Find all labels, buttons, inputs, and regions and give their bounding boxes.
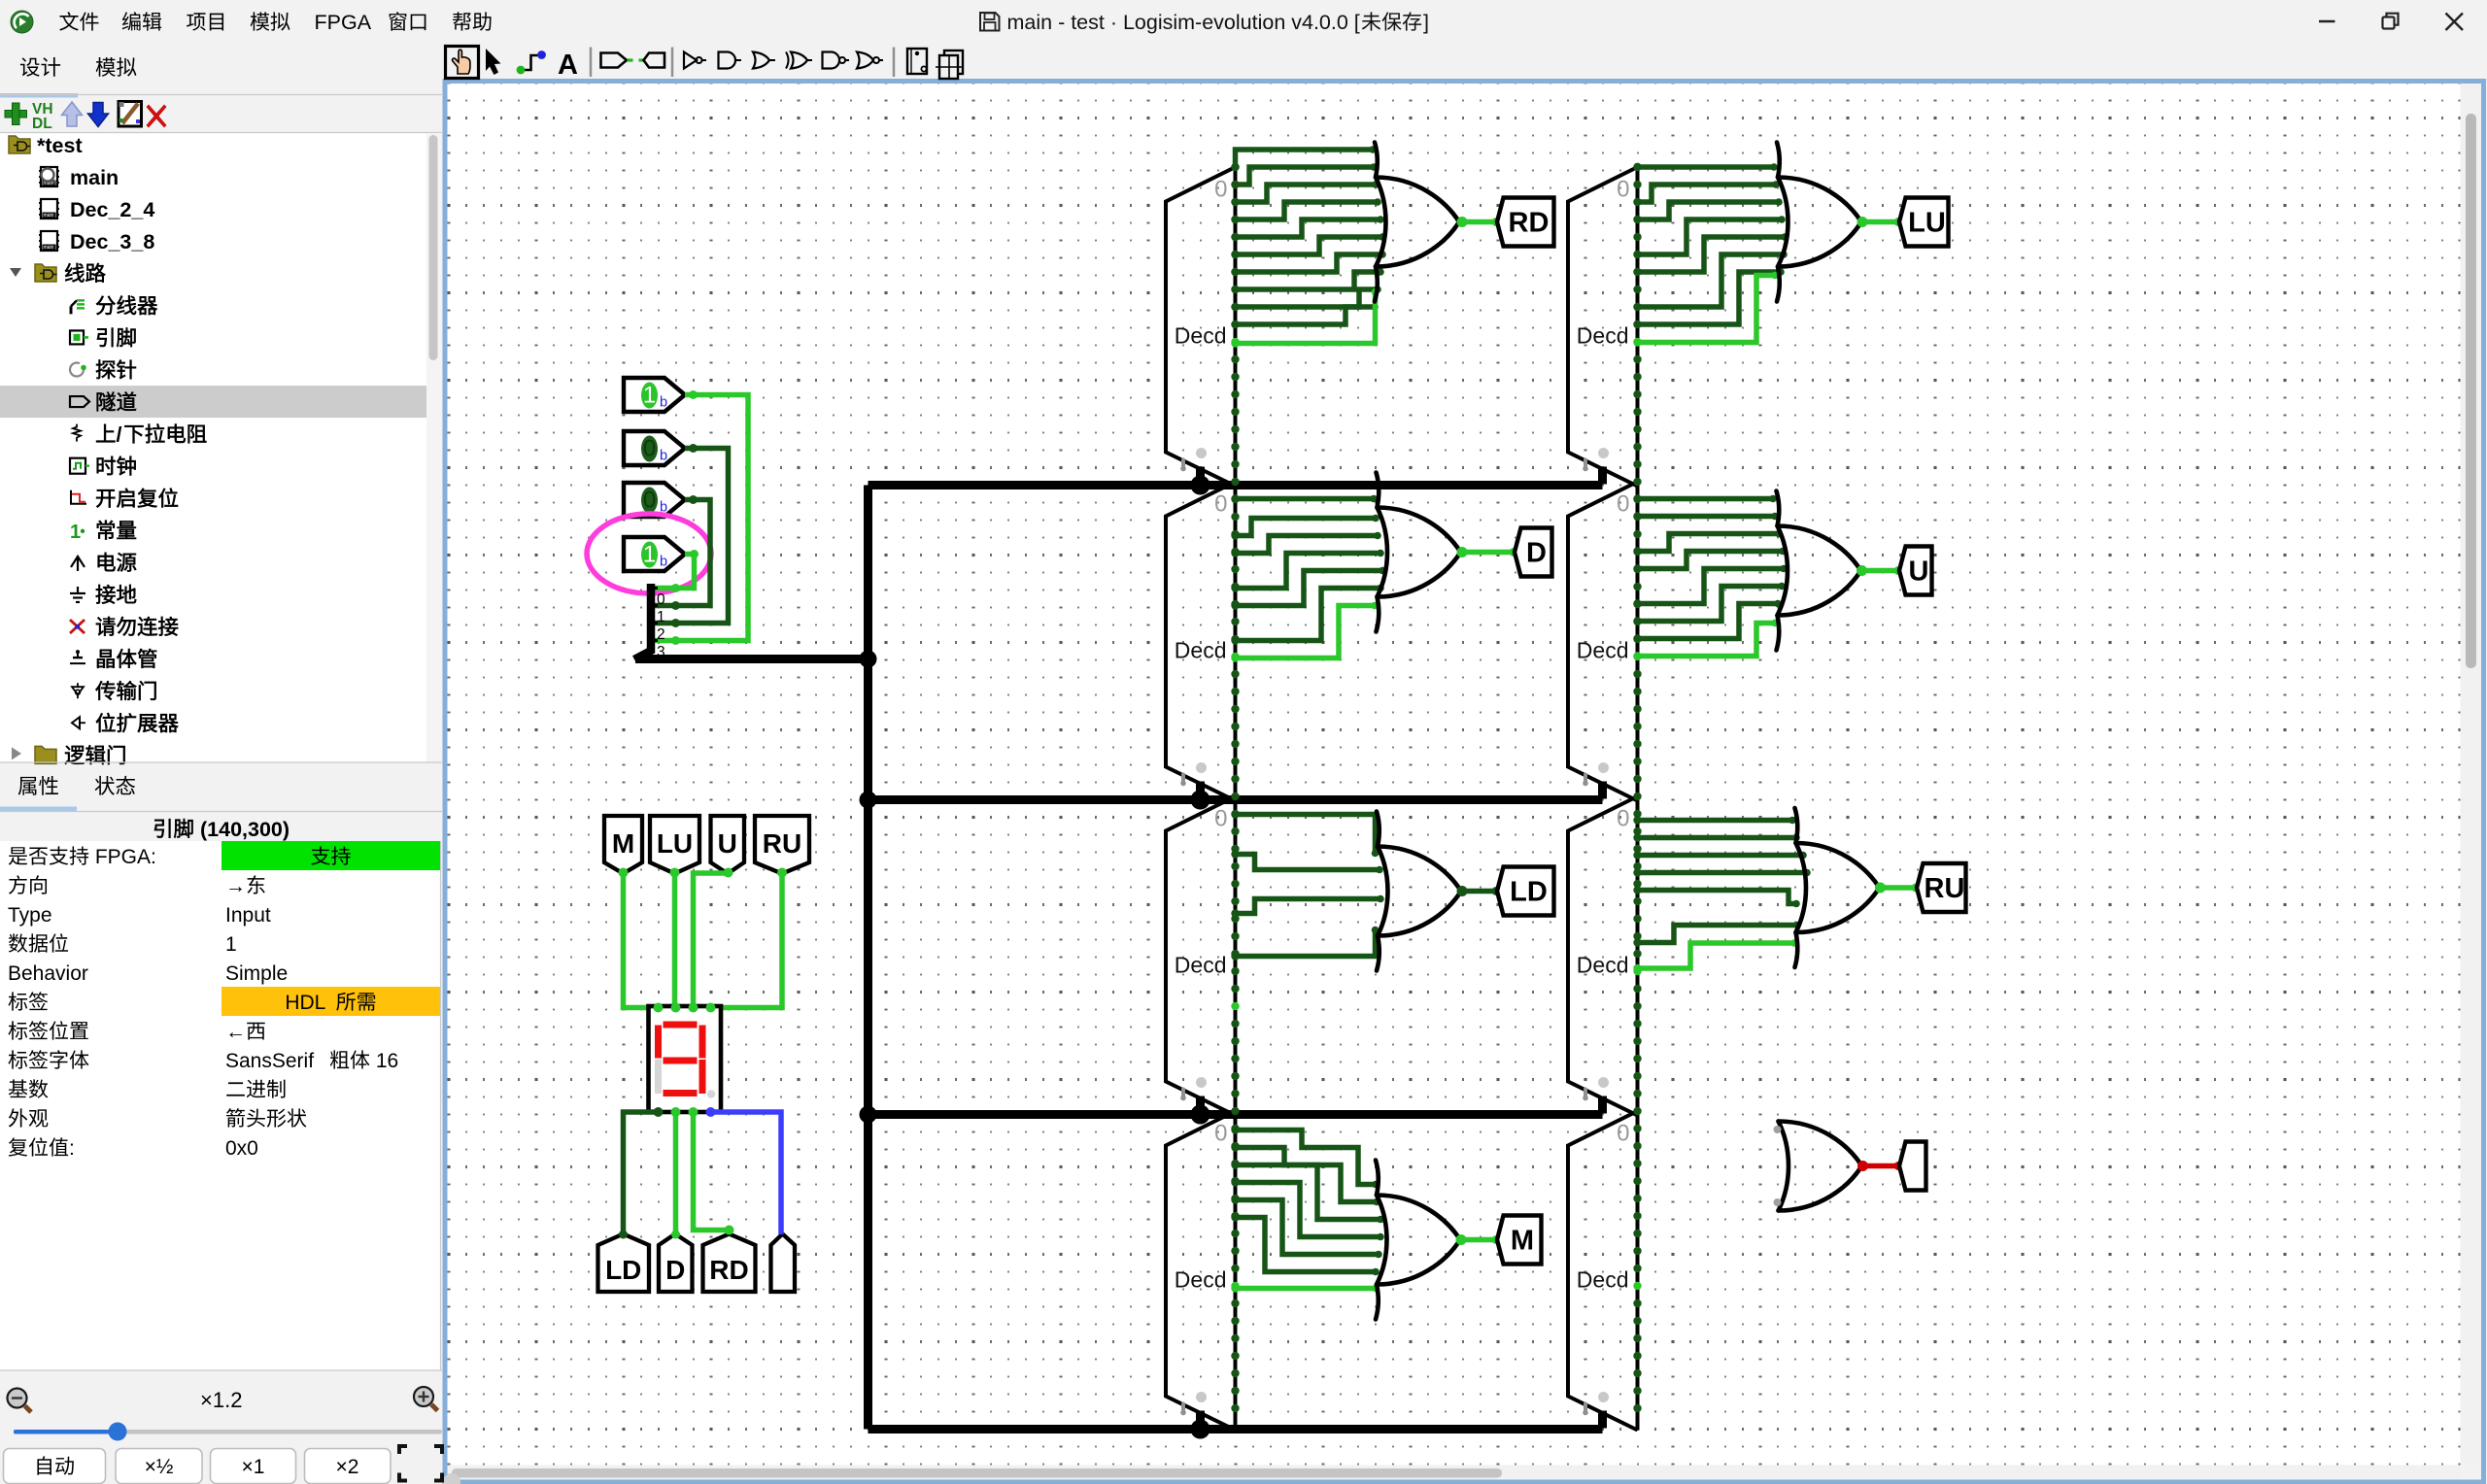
svg-text:Decd: Decd (1577, 1267, 1629, 1293)
svg-text:RD: RD (709, 1255, 748, 1285)
svg-text:b: b (660, 449, 667, 464)
svg-text:LD: LD (605, 1255, 641, 1285)
svg-text:RU: RU (1925, 873, 1965, 904)
svg-text:RD: RD (1509, 208, 1550, 239)
svg-text:2: 2 (657, 626, 665, 643)
svg-text:Behavior: Behavior (8, 962, 88, 985)
svg-text:0: 0 (657, 591, 665, 608)
svg-text:M: M (612, 828, 634, 859)
svg-text:RU: RU (763, 828, 801, 859)
svg-text:b: b (660, 555, 667, 570)
svg-text:(140,300): (140,300) (200, 818, 290, 841)
svg-text:Decd: Decd (1175, 323, 1227, 349)
svg-text:main - test · Logisim-evolutio: main - test · Logisim-evolution v4.0.0 [ (1007, 11, 1360, 34)
svg-text:0: 0 (1214, 806, 1227, 832)
svg-text:0: 0 (1617, 177, 1629, 203)
svg-text:HDL: HDL (285, 992, 331, 1014)
svg-text:Decd: Decd (1175, 638, 1227, 663)
svg-text:×1.2: ×1.2 (200, 1388, 242, 1412)
svg-text:*test: *test (37, 134, 83, 157)
svg-text:FPGA: FPGA (315, 11, 372, 34)
svg-text:1: 1 (643, 542, 656, 568)
svg-text:×½: ×½ (145, 1456, 174, 1478)
svg-text::: : (69, 1137, 75, 1160)
svg-text:Decd: Decd (1577, 323, 1629, 349)
svg-text:0: 0 (1617, 806, 1629, 832)
svg-text:0: 0 (1214, 177, 1227, 203)
svg-text:DL: DL (32, 116, 52, 132)
svg-text:0x0: 0x0 (225, 1137, 258, 1160)
svg-text:main: main (70, 166, 119, 189)
svg-text:1: 1 (225, 933, 237, 956)
svg-text:Decd: Decd (1577, 638, 1629, 663)
svg-text:→: → (225, 875, 246, 897)
svg-text:←: ← (225, 1021, 246, 1043)
svg-text:FPGA:: FPGA: (89, 846, 156, 868)
svg-text:Dec_3_8: Dec_3_8 (70, 230, 154, 253)
svg-text:D: D (1526, 538, 1547, 569)
svg-text:LU: LU (657, 828, 693, 859)
svg-text:0: 0 (1617, 1121, 1629, 1147)
svg-text:0: 0 (1214, 1121, 1227, 1147)
svg-text:LU: LU (1908, 208, 1946, 239)
svg-text:1: 1 (643, 383, 656, 409)
svg-text:16: 16 (370, 1050, 398, 1072)
svg-text:main: main (44, 245, 54, 251)
svg-text:main: main (44, 213, 54, 219)
svg-text:b: b (660, 395, 667, 411)
svg-text:Input: Input (225, 904, 271, 927)
svg-text:×2: ×2 (336, 1456, 359, 1478)
svg-text:0: 0 (643, 488, 656, 514)
svg-text:Decd: Decd (1577, 953, 1629, 978)
svg-text:Decd: Decd (1175, 953, 1227, 978)
svg-text:M: M (1511, 1226, 1534, 1257)
svg-text:Dec_2_4: Dec_2_4 (70, 198, 154, 221)
svg-text:U: U (718, 828, 737, 859)
svg-text:A: A (558, 50, 578, 81)
svg-text:Simple: Simple (225, 962, 288, 985)
svg-text:Type: Type (8, 904, 52, 927)
svg-text:0: 0 (1617, 491, 1629, 518)
svg-text:D: D (665, 1255, 685, 1285)
svg-text:]: ] (1423, 11, 1429, 34)
svg-text:LD: LD (1510, 877, 1548, 908)
svg-text:1: 1 (70, 522, 81, 543)
svg-text:U: U (1909, 556, 1929, 588)
svg-text:/: / (117, 423, 122, 447)
svg-text:0: 0 (1214, 491, 1227, 518)
svg-text:0: 0 (643, 436, 656, 462)
svg-text:×1: ×1 (242, 1456, 265, 1478)
svg-text:1: 1 (657, 609, 665, 625)
svg-text:SansSerif: SansSerif (225, 1050, 314, 1072)
svg-text:Decd: Decd (1175, 1267, 1227, 1293)
